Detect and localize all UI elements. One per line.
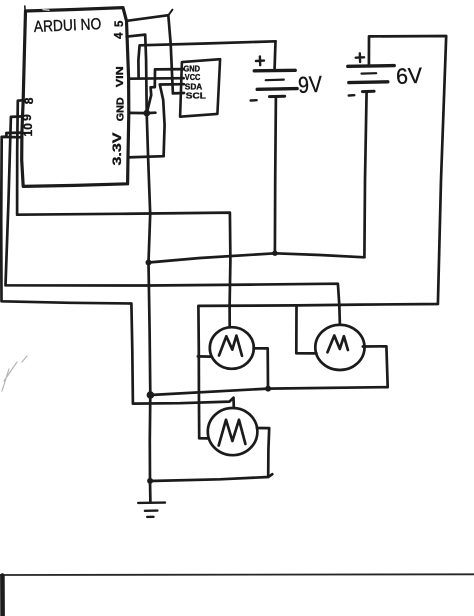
svg-text:ARDUI NO: ARDUI NO (33, 16, 101, 36)
svg-text:3.3V: 3.3V (112, 132, 124, 165)
junction dot minus bus (146, 260, 152, 266)
svg-text:9V: 9V (297, 71, 323, 98)
junction dot rail A (147, 391, 155, 399)
wire 6V minus drop (364, 92, 366, 258)
wire motor2 left riser (296, 306, 316, 354)
wire motor3 bottom return (150, 474, 272, 481)
battery B1 plus (256, 57, 264, 66)
battery B1 9V plates (254, 69, 295, 73)
motor M2 (315, 325, 364, 370)
svg-text:GND: GND (116, 97, 127, 121)
battery B2 minus (349, 94, 355, 97)
wire 9V+ to VIN line (138, 41, 275, 78)
wire pin9 to motor2 top (6, 116, 340, 324)
wire VIN to module VCC (129, 77, 184, 80)
wire ground vertical (147, 113, 151, 502)
arduino corner tick (24, 6, 26, 12)
wire motor3 right loop to ground (257, 428, 269, 477)
svg-text:4: 4 (113, 32, 125, 39)
arduino U1 body (22, 8, 129, 187)
frame left edge (0, 576, 5, 616)
junction dot GND-module (143, 110, 150, 117)
module U2 body (180, 59, 220, 116)
battery B1 minus (251, 99, 257, 102)
junction dot 9V minus (272, 251, 277, 256)
wire pin10 stair extra stroke (2, 136, 22, 139)
wire 6V+ around right side to motor rail (198, 36, 446, 438)
ground symbol (138, 503, 165, 517)
svg-text:VIN: VIN (115, 66, 126, 87)
wire 3.3V pin (128, 156, 164, 157)
wire pin8 to motor1 top (17, 100, 230, 325)
svg-text:SCL: SCL (186, 90, 206, 100)
smudge above arduino (43, 9, 49, 12)
wire rail A ground return (150, 346, 387, 395)
wire module SDA down to 3.3V line (160, 84, 184, 156)
junction dot ground bottom (147, 478, 153, 484)
pencil smudge left margin (2, 356, 27, 391)
wire serif at pin5 corner (168, 10, 173, 16)
battery B2 plus (356, 53, 364, 62)
wire battery minus bus (149, 253, 365, 262)
wire pin10 to motor3 top (1, 133, 234, 408)
svg-text:5: 5 (114, 20, 126, 27)
wire pin5 to SCL (126, 15, 184, 93)
svg-text:GND: GND (184, 65, 201, 74)
wire GND pin to junction (129, 111, 156, 114)
wire junction up to module GND (147, 69, 184, 112)
motor M3 (208, 408, 258, 455)
battery B2 6V plates (348, 64, 394, 68)
wire motor1 right down to rail A (254, 348, 268, 388)
junction dot motor1 right (265, 386, 271, 392)
frame line bottom (0, 573, 474, 576)
svg-text:10: 10 (21, 123, 35, 137)
wire pin4 down to GND junction (127, 35, 147, 113)
svg-text:6V: 6V (395, 63, 423, 89)
wire 9V+ drop to battery (273, 41, 277, 68)
wire motor1 left stub (198, 355, 211, 358)
motor M1 (210, 327, 254, 369)
wire 9V minus drop (275, 97, 276, 254)
